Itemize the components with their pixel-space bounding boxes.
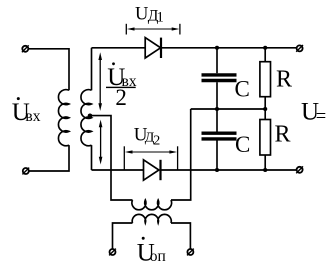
svg-text:оп: оп	[150, 248, 166, 265]
bottom rail (VD2 cathode to output terminal X4)	[161, 169, 297, 171]
transformer secondary winding	[81, 90, 92, 146]
svg-text:C: C	[235, 77, 250, 102]
diode VD2	[144, 160, 161, 180]
input terminal X2 (bottom left)	[22, 168, 29, 175]
wire center tap to reference winding	[90, 116, 133, 200]
svg-text:R: R	[275, 122, 291, 148]
svg-text:R: R	[276, 67, 292, 93]
capacitor C2	[202, 109, 237, 170]
top rail (VD1 cathode to output terminal X3)	[161, 47, 297, 49]
top rail (secondary top to VD1 anode)	[92, 47, 146, 49]
label U_D2	[134, 124, 161, 148]
capacitor C1	[202, 48, 237, 109]
svg-text:C: C	[235, 132, 250, 157]
middle rail (load midpoint)	[191, 108, 266, 110]
wire L2 left lead to X5	[113, 223, 133, 249]
svg-text:2: 2	[115, 85, 127, 110]
resistor R2	[260, 109, 271, 170]
wire reference winding right lead up through bottom rail	[171, 109, 191, 200]
diode VD1	[145, 38, 161, 58]
transformer primary winding	[58, 90, 69, 146]
label U_D1	[135, 4, 164, 25]
dim arrow U_vx/2 upper	[98, 52, 102, 111]
wire X1 to primary winding top	[29, 49, 70, 91]
junction node top rail / C1	[215, 46, 219, 50]
bottom rail (secondary bottom to VD2 anode)	[92, 169, 144, 171]
junction node bottom rail / R2	[263, 168, 267, 172]
label U_vx/2 fraction	[106, 62, 137, 110]
output terminal X4 (bottom right)	[296, 166, 303, 173]
junction node middle rail / R	[263, 107, 267, 111]
reference winding L2 (lower, bulge up)	[132, 214, 171, 223]
reference terminal X5	[109, 249, 116, 256]
reference terminal X6	[187, 249, 194, 256]
dim arrow U_D1	[126, 24, 180, 35]
junction node top rail / R1	[263, 46, 267, 50]
label U= (output)	[301, 99, 326, 127]
dim arrow U_D2	[124, 146, 177, 170]
svg-text:вх: вх	[25, 108, 40, 125]
center tap node	[88, 114, 93, 119]
label U_op	[137, 237, 166, 266]
input terminal X1 (top left)	[22, 45, 29, 52]
reference winding L1 (upper, bulge down)	[132, 200, 172, 210]
secondary winding bottom lead	[91, 145, 93, 170]
output terminal X3 (top right)	[296, 45, 303, 52]
wire L2 right lead to X6	[171, 223, 190, 249]
svg-text:=: =	[316, 107, 326, 127]
dim arrow U_vx/2 lower	[99, 120, 103, 165]
secondary winding top lead	[91, 48, 93, 91]
svg-text:U: U	[135, 4, 148, 24]
svg-text:2: 2	[153, 134, 160, 149]
junction node middle rail / C	[215, 107, 219, 111]
wire primary bottom to X2	[29, 145, 69, 171]
resistor R1	[260, 48, 271, 109]
label U_vx	[12, 97, 41, 126]
svg-text:1: 1	[156, 9, 164, 25]
junction node bottom rail / C2	[215, 168, 219, 172]
